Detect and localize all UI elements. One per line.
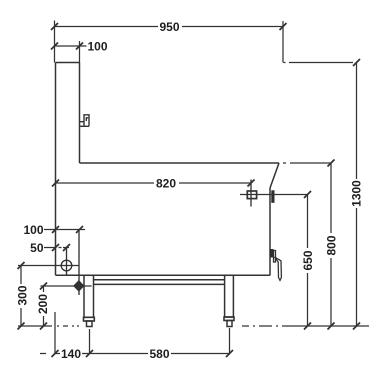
splashback back face (left vertical edge, full height) bbox=[55, 63, 57, 276]
dim 140/580: extension below right foot bbox=[229, 328, 231, 354]
electrical connection circle symbol bbox=[61, 260, 72, 271]
floor line right dash-dot bbox=[242, 325, 249, 327]
dim 140/580: extension below left foot bbox=[89, 329, 91, 354]
tick 100 left on back face bbox=[52, 226, 59, 233]
tick 50 on back face bbox=[52, 244, 59, 251]
dim 950: line bbox=[55, 26, 284, 28]
diamond cross vertical / extension from 100 dim bbox=[78, 230, 80, 296]
svg-text:300: 300 bbox=[16, 285, 30, 305]
dim 140/580: extension below back face bbox=[54, 312, 56, 354]
text 140 bbox=[60, 348, 82, 359]
door handle on front face bbox=[270, 249, 281, 280]
svg-text:820: 820 bbox=[156, 177, 176, 191]
text 1300 rotated bbox=[350, 179, 363, 208]
tick 300 top bbox=[18, 262, 25, 269]
tick 100 top right bbox=[76, 43, 83, 50]
body front face bbox=[269, 188, 271, 275]
dim 650: line bbox=[307, 195, 309, 327]
floor line left dash-dot bbox=[57, 325, 59, 327]
text 800 rotated bbox=[325, 233, 337, 258]
tick 820 left bbox=[52, 180, 59, 187]
circle cross horizontal / extension to 300 dim bbox=[18, 265, 80, 267]
tick 1300 bottom bbox=[353, 323, 360, 330]
tick 580 right bbox=[226, 350, 233, 357]
splashback front face bbox=[79, 63, 81, 164]
gas symbol horizontal / extension to 650 dim bbox=[240, 194, 308, 196]
svg-text:100: 100 bbox=[23, 223, 43, 237]
worktop top surface bbox=[80, 162, 280, 164]
tick 1300 top bbox=[353, 59, 360, 66]
svg-text:200: 200 bbox=[36, 294, 50, 314]
dim 1300: line bbox=[356, 63, 358, 327]
base frame rails bbox=[94, 279, 225, 281]
svg-text:100: 100 bbox=[88, 40, 108, 54]
dim 140/580: line bbox=[55, 353, 230, 355]
text 820 bbox=[154, 177, 179, 189]
svg-text:140: 140 bbox=[61, 347, 81, 361]
gas connection symbol box bbox=[247, 191, 256, 199]
tick 200 top bbox=[40, 283, 47, 290]
mounting bracket hook on splashback bbox=[80, 115, 90, 127]
dim 820: line bbox=[56, 182, 251, 184]
right foot stem bbox=[227, 321, 232, 327]
right foot block bbox=[224, 317, 234, 321]
tick 50 at ext bbox=[63, 244, 70, 251]
dim 100 top: extension right bbox=[79, 41, 81, 63]
tick 650 bottom bbox=[304, 323, 311, 330]
body bottom bbox=[56, 274, 271, 276]
text 950 bbox=[158, 20, 182, 32]
right leg bbox=[225, 275, 234, 317]
svg-text:950: 950 bbox=[159, 20, 179, 34]
dim 200: line bbox=[43, 286, 45, 326]
text 200 rotated bbox=[38, 292, 50, 316]
dim 140/580: left dash bbox=[40, 353, 46, 355]
tick 140 right bbox=[86, 350, 93, 357]
svg-text:800: 800 bbox=[325, 235, 339, 255]
dim 300: line bbox=[20, 266, 22, 327]
dim 50: leader line bbox=[44, 247, 56, 249]
tick 820 right bbox=[248, 180, 255, 187]
svg-text:50: 50 bbox=[30, 241, 44, 255]
left leg bbox=[84, 275, 94, 317]
tick 950 right bbox=[280, 23, 287, 30]
tick 650 top bbox=[304, 191, 311, 198]
diamond cross horizontal / extension to 200 dim bbox=[41, 285, 92, 287]
gas symbol vertical bbox=[250, 180, 252, 207]
dim 100 left: leader line bbox=[44, 229, 85, 231]
svg-text:580: 580 bbox=[149, 347, 169, 361]
worktop front slant bbox=[270, 163, 279, 188]
dim 950: extension left bbox=[54, 21, 56, 63]
text 580 bbox=[148, 348, 171, 359]
svg-text:650: 650 bbox=[301, 250, 315, 270]
tick 300 bottom bbox=[18, 323, 25, 330]
svg-text:1300: 1300 bbox=[350, 180, 364, 207]
floor line left solid bbox=[18, 325, 52, 327]
dim 800: line bbox=[330, 163, 332, 326]
tick 800 bottom bbox=[328, 323, 335, 330]
floor line right solid bbox=[282, 325, 369, 327]
tick 140 left bbox=[52, 350, 59, 357]
gas inlet stub (dark bar) bbox=[271, 190, 274, 203]
dim 1300: dash-dot extension at top bbox=[284, 62, 286, 64]
tick 100 top left bbox=[51, 43, 58, 50]
tick 950 left bbox=[51, 23, 58, 30]
splashback top edge bbox=[56, 62, 80, 64]
text 300 rotated bbox=[16, 284, 28, 308]
tick 200 bottom bbox=[40, 323, 47, 330]
dim 100 top: line + leader bbox=[55, 45, 87, 47]
dim 950: extension right bbox=[282, 21, 284, 63]
left foot block bbox=[84, 317, 95, 321]
dim 800: dash-dot extension at worktop bbox=[283, 162, 286, 164]
water connection diamond symbol bbox=[74, 281, 84, 291]
text 650 rotated bbox=[302, 248, 314, 273]
tick 100 left at ext bbox=[76, 226, 83, 233]
tick 800 top bbox=[328, 160, 335, 167]
circle cross vertical bbox=[66, 248, 68, 276]
left foot stem bbox=[87, 321, 93, 327]
